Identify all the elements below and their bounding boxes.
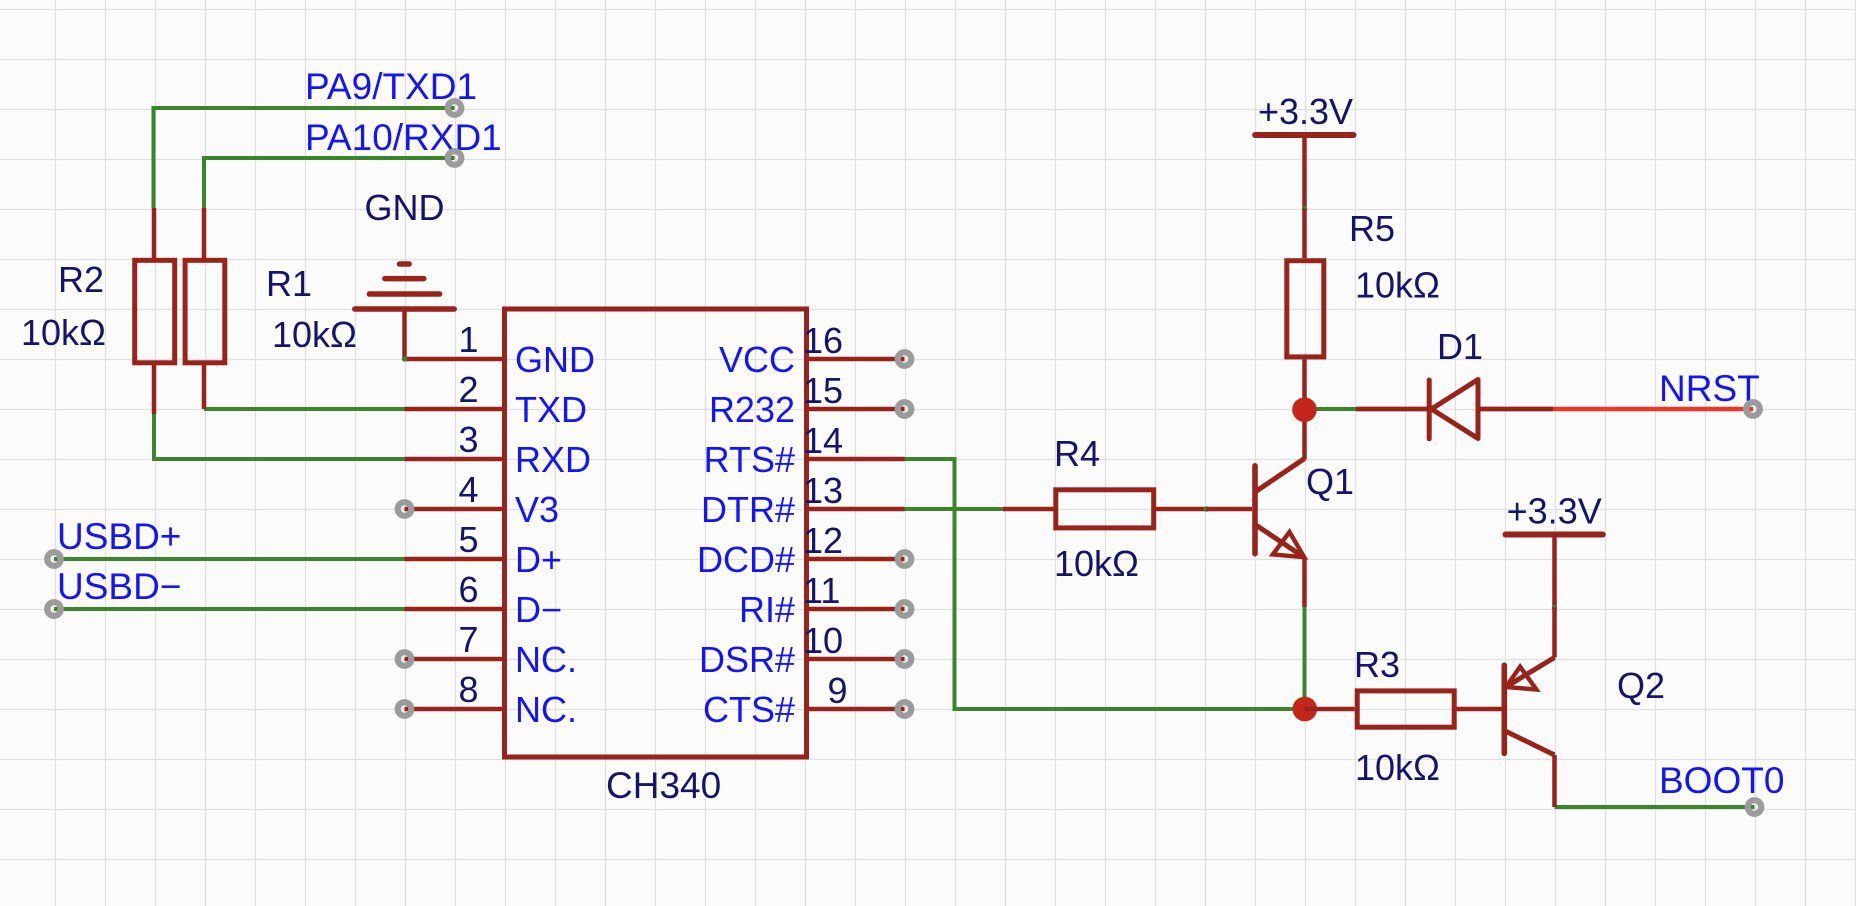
net label PA10/RXD1 [305, 117, 502, 158]
svg-text:12: 12 [803, 520, 843, 561]
svg-text:13: 13 [803, 470, 843, 511]
svg-text:RI#: RI# [739, 589, 795, 630]
power +3.3V flag (top) [1255, 135, 1353, 209]
pin name VCC [719, 339, 795, 380]
svg-text:10kΩ: 10kΩ [1054, 543, 1139, 584]
pin 3 (RXD) stub [405, 457, 505, 462]
pin number 9 [828, 670, 848, 711]
pin 16 (VCC) stub [807, 357, 905, 362]
svg-text:NC.: NC. [515, 639, 577, 680]
svg-text:1: 1 [458, 319, 478, 360]
node pin1-GND corner [402, 356, 407, 361]
wire PA10/RXD1 net [204, 158, 455, 208]
pin name NC. [515, 689, 577, 730]
pin 14 (RTS#) stub [807, 457, 905, 462]
pin 11 (RI#) stub [807, 607, 905, 612]
port BOOT0 [1748, 800, 1762, 814]
unconnected pin terminal pin 8 [398, 702, 412, 716]
node R4-Q1 base [1204, 506, 1209, 511]
svg-text:USBD+: USBD+ [57, 516, 181, 557]
net label USBD− [57, 566, 181, 607]
pin number 15 [803, 370, 843, 411]
label R1 [266, 263, 312, 304]
svg-text:NRST: NRST [1659, 368, 1760, 409]
pin number 13 [803, 470, 843, 511]
value 10kΩ of R1 [272, 314, 357, 355]
unconnected pin terminal pin 7 [398, 652, 412, 666]
svg-text:10kΩ: 10kΩ [1355, 265, 1440, 306]
pin name RTS# [704, 439, 795, 480]
node Q2 emitter stem [1552, 605, 1557, 610]
label R4 [1054, 433, 1100, 474]
unconnected pin terminal pin 12 [898, 552, 912, 566]
svg-text:D−: D− [515, 589, 562, 630]
svg-text:+3.3V: +3.3V [1258, 91, 1353, 132]
svg-text:RTS#: RTS# [704, 439, 795, 480]
svg-text:R5: R5 [1349, 208, 1395, 249]
pin name DCD# [697, 539, 795, 580]
pin number 1 [458, 319, 478, 360]
svg-text:V3: V3 [515, 489, 559, 530]
wire NRST (highlighted) [1553, 407, 1753, 412]
svg-text:R3: R3 [1354, 644, 1400, 685]
value 10kΩ of R2 [21, 312, 106, 353]
pin name D+ [515, 539, 562, 580]
svg-text:9: 9 [828, 670, 848, 711]
node A junction [1292, 397, 1317, 422]
port USBD− [47, 602, 61, 616]
svg-text:GND: GND [515, 339, 595, 380]
label R3 [1354, 644, 1400, 685]
pin 9 (CTS#) stub [807, 707, 905, 712]
svg-text:DTR#: DTR# [701, 489, 795, 530]
svg-text:10kΩ: 10kΩ [21, 312, 106, 353]
pin number 16 [803, 320, 843, 361]
svg-text:10: 10 [803, 620, 843, 661]
transistor Q2 [1504, 608, 1554, 808]
wire USBD+ to D+ pin 5 [54, 557, 405, 561]
pin name GND [515, 339, 595, 380]
resistor R3 [1305, 691, 1505, 727]
op-amp-style IC body U1 CH340 [505, 309, 807, 757]
value 10kΩ of R5 [1355, 265, 1440, 306]
ground GND flag [355, 264, 454, 359]
svg-text:CTS#: CTS# [703, 689, 795, 730]
pin number 14 [803, 420, 843, 461]
wire Q1 emitter to node B [1303, 607, 1307, 709]
svg-text:Q1: Q1 [1306, 461, 1354, 502]
svg-text:10kΩ: 10kΩ [272, 314, 357, 355]
IC value label CH340 [606, 765, 721, 806]
pin name NC. [515, 639, 577, 680]
port PA10/RXD1 [448, 151, 462, 165]
resistor R1 [185, 208, 225, 409]
pin 4 (V3) stub [405, 507, 505, 512]
svg-text:7: 7 [458, 619, 478, 660]
svg-text:R2: R2 [58, 259, 104, 300]
pin number 3 [458, 419, 478, 460]
label +3.3V (top) [1258, 91, 1353, 132]
label Q1 [1306, 461, 1354, 502]
svg-text:16: 16 [803, 320, 843, 361]
svg-text:BOOT0: BOOT0 [1659, 760, 1784, 801]
node B junction [1293, 697, 1318, 722]
port NRST [1746, 402, 1760, 416]
svg-text:11: 11 [803, 570, 840, 611]
label GND [365, 187, 445, 228]
pin name RXD [515, 439, 591, 480]
net label BOOT0 [1659, 760, 1784, 801]
wire node A to D1 [1305, 407, 1357, 411]
pin 10 (DSR#) stub [807, 657, 905, 662]
pin 15 (R232) stub [807, 407, 905, 412]
resistor R4 [1003, 490, 1207, 528]
pin number 6 [458, 569, 478, 610]
wire RTS# to node B [905, 459, 1305, 709]
svg-text:GND: GND [365, 187, 445, 228]
wire Q2 collector to BOOT0 [1555, 805, 1755, 809]
pin number 2 [458, 369, 478, 410]
svg-text:USBD−: USBD− [57, 566, 181, 607]
svg-text:+3.3V: +3.3V [1507, 491, 1602, 532]
wire USBD- to D- pin 6 [54, 607, 405, 611]
value 10kΩ of R3 [1355, 747, 1440, 788]
svg-text:PA10/RXD1: PA10/RXD1 [305, 117, 502, 158]
pin name CTS# [703, 689, 795, 730]
label R5 [1349, 208, 1395, 249]
svg-text:15: 15 [803, 370, 843, 411]
svg-text:14: 14 [803, 420, 843, 461]
net label USBD+ [57, 516, 181, 557]
unconnected pin terminal pin 15 [898, 402, 912, 416]
svg-text:10kΩ: 10kΩ [1355, 747, 1440, 788]
pin number 4 [458, 469, 478, 510]
svg-text:4: 4 [458, 469, 478, 510]
unconnected pin terminal pin 4 [398, 502, 412, 516]
port PA9/TXD1 [448, 101, 462, 115]
svg-text:VCC: VCC [719, 339, 795, 380]
pin name TXD [515, 389, 587, 430]
pin name DSR# [699, 639, 795, 680]
svg-text:Q2: Q2 [1617, 665, 1665, 706]
pin number 12 [803, 520, 843, 561]
svg-text:DCD#: DCD# [697, 539, 795, 580]
pin 2 (TXD) stub [405, 407, 505, 412]
svg-text:CH340: CH340 [606, 765, 721, 806]
svg-text:D+: D+ [515, 539, 562, 580]
svg-text:DSR#: DSR# [699, 639, 795, 680]
pin name R232 [709, 389, 795, 430]
svg-text:D1: D1 [1437, 326, 1483, 367]
resistor R2 [135, 208, 175, 414]
svg-text:R4: R4 [1054, 433, 1100, 474]
pin 13 (DTR#) stub [807, 507, 905, 512]
pin number 11 [803, 570, 840, 611]
net label PA9/TXD1 [305, 66, 477, 107]
label D1 [1437, 326, 1483, 367]
unconnected pin terminal pin 10 [898, 652, 912, 666]
pin number 7 [458, 619, 478, 660]
pin number 8 [458, 669, 478, 710]
svg-text:R1: R1 [266, 263, 312, 304]
svg-text:2: 2 [458, 369, 478, 410]
pin name DTR# [701, 489, 795, 530]
pin name D− [515, 589, 562, 630]
resistor R5 [1287, 209, 1324, 410]
svg-text:3: 3 [458, 419, 478, 460]
pin 12 (DCD#) stub [807, 557, 905, 562]
pin number 10 [803, 620, 843, 661]
unconnected pin terminal pin 9 [898, 702, 912, 716]
pin 5 (D+) stub [405, 557, 505, 562]
pin 7 (NC.) stub [405, 657, 505, 662]
pin name V3 [515, 489, 559, 530]
transistor Q1 [1207, 410, 1305, 607]
svg-text:5: 5 [458, 519, 478, 560]
wire DTR# to R4 [905, 507, 1004, 511]
svg-text:NC.: NC. [515, 689, 577, 730]
unconnected pin terminal pin 16 [898, 352, 912, 366]
pin 6 (D−) stub [405, 607, 505, 612]
node R5 stem [1302, 206, 1307, 211]
svg-text:R232: R232 [709, 389, 795, 430]
unconnected pin terminal pin 11 [898, 602, 912, 616]
diode D1 [1356, 380, 1553, 439]
port USBD+ [47, 552, 61, 566]
wire R2 to RXD pin 3 [154, 414, 405, 459]
value 10kΩ of R4 [1054, 543, 1139, 584]
svg-text:8: 8 [458, 669, 478, 710]
label +3.3V (right) [1507, 491, 1602, 532]
wire PA9/TXD1 net [154, 108, 455, 208]
pin number 5 [458, 519, 478, 560]
wire R1 to TXD pin 2 [204, 407, 405, 411]
svg-text:6: 6 [458, 569, 478, 610]
pin name RI# [739, 589, 795, 630]
label R2 [58, 259, 104, 300]
svg-text:RXD: RXD [515, 439, 591, 480]
label Q2 [1617, 665, 1665, 706]
svg-text:TXD: TXD [515, 389, 587, 430]
pin 1 (GND) stub [405, 357, 505, 362]
power +3.3V flag (right) [1506, 535, 1603, 608]
pin 8 (NC.) stub [405, 707, 505, 712]
net label NRST [1659, 368, 1760, 409]
